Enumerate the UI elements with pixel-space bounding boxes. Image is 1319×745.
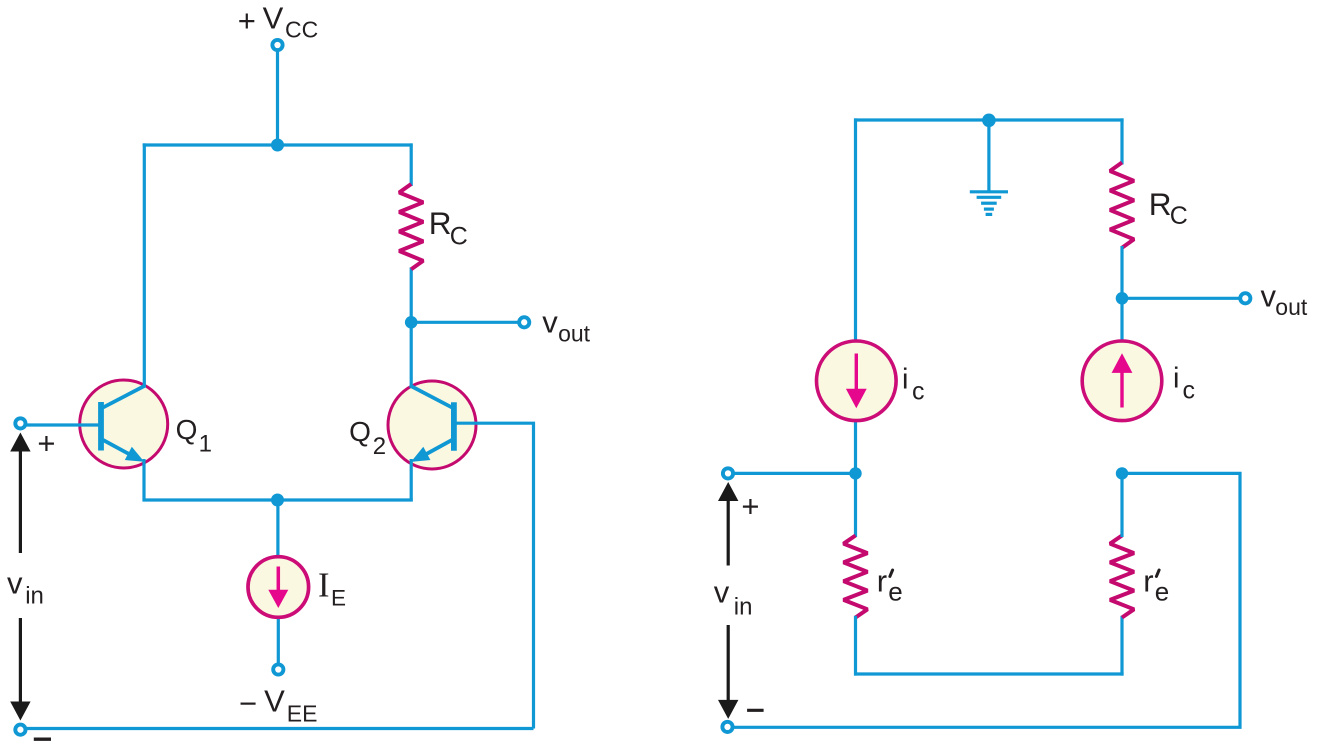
node: vout (right)	[1116, 292, 1129, 305]
wire: right return loop	[734, 473, 1240, 727]
svg-text:v: v	[542, 305, 558, 340]
node: base junction left	[849, 467, 861, 479]
wire: Vcc lead	[276, 48, 279, 147]
svg-text:v: v	[7, 565, 23, 600]
ground stem	[987, 120, 990, 192]
Q2 symbol: base bar, collector, emitter arrow	[451, 402, 457, 451]
svg-text:in: in	[25, 583, 44, 610]
svg-text:1: 1	[199, 430, 212, 457]
wire: r'e right to inner rail	[1120, 616, 1123, 676]
vin arrow (right)	[718, 482, 738, 501]
svg-text:i: i	[1173, 363, 1179, 395]
terminal: vout (right)	[1240, 293, 1250, 303]
wire: vout tap (left)	[411, 321, 519, 324]
svg-text:e: e	[888, 576, 902, 606]
terminal: vin - (right)	[722, 722, 732, 732]
resistor r'e (right)	[1110, 536, 1134, 618]
wire: Q2 emitter lead	[410, 459, 413, 502]
svg-text:r: r	[1143, 563, 1153, 598]
resistor RC (left circuit)	[399, 184, 423, 269]
wire: bottom return (left circuit)	[26, 727, 534, 730]
svg-text:Q: Q	[349, 416, 371, 447]
wire: Q1 emitter lead	[142, 459, 145, 502]
terminal: vout (left)	[519, 317, 529, 327]
wire: tail current lead	[276, 500, 279, 558]
svg-text:I: I	[318, 567, 330, 605]
svg-text:in: in	[734, 594, 753, 621]
wire: Q1 base lead	[25, 423, 101, 426]
node: base junction right	[1116, 467, 1128, 479]
svg-text:v: v	[1261, 278, 1277, 313]
current source IE	[248, 557, 309, 618]
transistor Q2	[388, 381, 476, 469]
resistor r'e (left)	[844, 536, 868, 618]
svg-text:r: r	[877, 563, 887, 598]
wire: vin+ to junction (right)	[733, 472, 857, 475]
wire: Q2 base lead / right return wire	[455, 423, 534, 728]
wire: left branch (ic source)	[854, 118, 857, 343]
svg-text:out: out	[558, 321, 591, 347]
svg-text:CC: CC	[285, 17, 318, 43]
current source ic (down, left branch)	[817, 341, 897, 421]
wire: vout node to ic source	[1120, 298, 1123, 343]
wire: left ic source to junction	[854, 418, 857, 476]
node: ground junction	[982, 114, 996, 128]
resistor RC (right circuit)	[1110, 163, 1134, 248]
wire: emitter rail	[143, 498, 413, 501]
wire: vout tap (right)	[1122, 297, 1240, 300]
label - (left)	[34, 738, 51, 741]
svg-text:EE: EE	[287, 701, 318, 727]
wire: right top rail	[854, 118, 1124, 121]
svg-text:E: E	[331, 586, 346, 611]
svg-text:R: R	[1149, 186, 1172, 222]
current source ic (up, right branch)	[1082, 341, 1162, 421]
wire: IE to -Vee terminal	[277, 617, 280, 664]
wire: RC top lead	[410, 143, 413, 186]
wire: junction to r'e left	[854, 473, 857, 537]
svg-text:c: c	[912, 377, 925, 405]
svg-text:i: i	[902, 364, 908, 396]
svg-text:V: V	[263, 1, 284, 36]
svg-text:R: R	[429, 205, 452, 241]
svg-text:+: +	[741, 489, 759, 524]
wire: vout node to Q2 collector	[410, 322, 413, 387]
Q1 symbol: base bar, collector, emitter arrow	[98, 402, 104, 451]
terminal: vin - (left)	[15, 725, 25, 735]
svg-text:+: +	[37, 425, 55, 460]
node: vout (left)	[405, 316, 418, 329]
svg-text:v: v	[714, 574, 730, 609]
transistor Q1	[80, 380, 168, 468]
terminal: -Vee	[273, 664, 283, 674]
svg-text:Q: Q	[176, 414, 198, 445]
svg-text:C: C	[1170, 202, 1188, 230]
node: Vcc rail junction	[271, 139, 284, 152]
vin arrow (left)	[10, 433, 30, 452]
svg-text:c: c	[1183, 376, 1196, 404]
svg-text:+: +	[238, 3, 256, 38]
wire: RC to vout node (right)	[1120, 246, 1123, 300]
svg-text:C: C	[450, 223, 468, 251]
wire: junction right to r'e	[1120, 473, 1123, 537]
terminal: +Vcc	[272, 40, 282, 50]
svg-text:V: V	[264, 683, 285, 718]
wire: left top rail	[143, 143, 413, 146]
svg-text:2: 2	[373, 433, 386, 460]
vin source (right): + terminal	[723, 468, 733, 478]
wire: inner bottom rail	[854, 672, 1124, 675]
wire: Q1 collector branch	[143, 143, 146, 387]
label - (right)	[747, 709, 764, 712]
svg-text:−: −	[239, 686, 257, 721]
wire: RC bottom to vout node	[410, 268, 413, 325]
svg-text:e: e	[1155, 576, 1169, 606]
wire: RC right top lead	[1120, 118, 1123, 164]
svg-text:out: out	[1275, 294, 1308, 320]
node: emitter rail junction	[271, 494, 284, 507]
vin source (left): + terminal	[15, 418, 25, 428]
wire: r'e left to inner rail	[854, 616, 857, 676]
ground symbol	[970, 190, 1008, 193]
